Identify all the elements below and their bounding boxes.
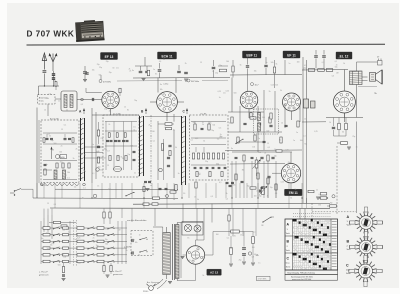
matrix row left resistor (43, 233, 50, 236)
svg-text:100: 100 (103, 158, 106, 160)
matrix row mid resistor (63, 254, 69, 256)
mains switch 1 (139, 239, 140, 240)
ground AZ12 (183, 254, 187, 256)
svg-text:2n: 2n (46, 164, 48, 166)
svg-text:Ans. Spannung: Ans. Spannung (146, 281, 159, 284)
svg-text:50k: 50k (99, 75, 102, 77)
svg-text:1n: 1n (219, 97, 221, 99)
svg-text:2n: 2n (61, 145, 63, 147)
band switch wafer C (181, 116, 183, 185)
svg-text:0,3: 0,3 (101, 157, 103, 159)
svg-text:25p: 25p (51, 140, 54, 142)
svg-text:0,5: 0,5 (217, 139, 219, 141)
wire bus to lamp branch (211, 203, 213, 222)
resistor above table right (330, 205, 337, 207)
svg-text:50k: 50k (193, 122, 196, 124)
svg-text:25p: 25p (51, 243, 54, 245)
svg-text:Vark: Vark (347, 249, 351, 251)
svg-text:0,1: 0,1 (268, 147, 270, 149)
svg-text:0,1: 0,1 (92, 173, 94, 175)
screen dash line mid (150, 115, 152, 186)
bus line 3 (133, 202, 330, 205)
dial lamp 1 (184, 224, 191, 231)
svg-text:0,1: 0,1 (335, 61, 337, 63)
svg-text:2k: 2k (264, 153, 266, 155)
svg-text:50k: 50k (271, 62, 274, 64)
wire top bus right portion (284, 60, 286, 75)
electrolytic capacitor block 1 (304, 99, 309, 108)
capacitor EF13 anode bypass (85, 72, 88, 74)
tube label EL12 (336, 52, 352, 59)
svg-text:25p: 25p (97, 64, 100, 66)
EL12 cathode resistor 2 (345, 123, 348, 130)
svg-text:d 707 WKK: d 707 WKK (258, 279, 267, 281)
matrix row mid resistor (63, 260, 69, 262)
svg-text:5k: 5k (133, 130, 135, 132)
EL12 cathode capacitor (332, 126, 335, 128)
power transformer (163, 223, 179, 281)
svg-text:50k: 50k (229, 248, 232, 250)
wire output bus (302, 69, 348, 72)
svg-text:gemessen: gemessen (113, 274, 123, 276)
svg-text:c. Pos 27: c. Pos 27 (39, 272, 49, 274)
svg-text:50k: 50k (338, 57, 341, 59)
svg-text:2k: 2k (185, 63, 187, 65)
capacitor switch 2 (131, 251, 133, 254)
matrix row left contact (53, 242, 54, 243)
svg-text:70p: 70p (211, 130, 214, 132)
svg-text:5k: 5k (240, 65, 242, 67)
svg-text:0,5: 0,5 (81, 104, 83, 106)
wire EM11 ground stub (290, 183, 292, 189)
svg-text:50k: 50k (131, 146, 134, 148)
wire right section links (302, 121, 326, 123)
svg-text:100: 100 (300, 140, 303, 142)
svg-text:25p: 25p (46, 232, 49, 234)
svg-text:500: 500 (54, 174, 57, 176)
svg-text:2n: 2n (93, 237, 95, 239)
svg-text:25p: 25p (205, 161, 208, 163)
svg-text:1n: 1n (296, 132, 298, 134)
svg-text:70p: 70p (127, 154, 130, 156)
matrix row right resistor 1 (77, 227, 84, 230)
svg-text:15: 15 (200, 62, 202, 64)
solid vertical from transformer (356, 122, 358, 214)
svg-text:0,25: 0,25 (96, 151, 99, 153)
svg-text:500: 500 (47, 248, 50, 250)
svg-text:von Ein Bauschalter: von Ein Bauschalter (127, 219, 147, 222)
resistor ECH11 couple 1 (165, 123, 172, 126)
components below ECH11 (161, 144, 163, 151)
svg-text:15: 15 (240, 234, 242, 236)
svg-text:30: 30 (49, 136, 51, 138)
svg-text:0,3: 0,3 (63, 229, 65, 231)
svg-text:50k: 50k (67, 172, 70, 174)
svg-text:2k: 2k (267, 195, 269, 197)
svg-text:10k: 10k (92, 69, 95, 71)
matrix row right resistor 2 (97, 254, 104, 256)
svg-text:gemessen: gemessen (39, 275, 49, 277)
svg-text:30: 30 (183, 193, 185, 195)
box1 H30 oscillator coil (56, 155, 67, 159)
svg-text:2k: 2k (44, 109, 46, 111)
dial cord zigzag (40, 183, 79, 186)
box3 caps row (194, 166, 197, 168)
wire antenna to coil (55, 98, 61, 100)
svg-text:2k: 2k (202, 124, 204, 126)
svg-text:0,3: 0,3 (132, 239, 134, 241)
matrix row right resistor 2 (97, 227, 104, 230)
svg-text:EF 13: EF 13 (105, 55, 114, 59)
wire bus to AZ12 anode (196, 209, 198, 240)
box3 top components (194, 124, 196, 130)
matrix row mid resistor (63, 227, 69, 229)
svg-text:10k: 10k (62, 253, 65, 255)
matrix row right resistor 2 (97, 240, 104, 243)
matrix row wire (41, 247, 127, 249)
svg-text:8n: 8n (155, 74, 157, 76)
matrix row right contact 2 (107, 235, 108, 236)
svg-text:30: 30 (112, 68, 114, 70)
svg-text:10k: 10k (254, 70, 257, 72)
svg-text:5k: 5k (226, 193, 228, 195)
IF transformer 2 dashed box (254, 109, 279, 134)
svg-text:EBF 11: EBF 11 (246, 53, 257, 57)
capacitor antenna 2a (52, 73, 55, 75)
junction circle bus 1 (93, 194, 97, 198)
box2 component row 2 (109, 156, 111, 161)
svg-text:25p: 25p (215, 73, 218, 75)
svg-text:1n: 1n (92, 144, 94, 146)
svg-text:Vark: Vark (286, 233, 290, 235)
svg-text:2k: 2k (126, 250, 128, 252)
svg-text:25p: 25p (352, 136, 355, 138)
dashed box mains switches (131, 231, 153, 256)
svg-text:2k: 2k (76, 149, 78, 151)
svg-text:100: 100 (63, 256, 66, 258)
svg-text:30: 30 (290, 198, 292, 200)
svg-text:2k: 2k (149, 125, 151, 127)
svg-text:Gegenkopplg. Hilfsabschaltung: Gegenkopplg. Hilfsabschaltung (287, 272, 315, 275)
phone jack (377, 57, 382, 66)
svg-text:8n: 8n (97, 145, 99, 147)
svg-text:500: 500 (266, 130, 269, 132)
speaker (370, 70, 383, 84)
capacitor C24 pair (184, 71, 188, 73)
tube label EF13 (101, 53, 118, 60)
svg-text:50k: 50k (105, 243, 108, 245)
svg-text:1n: 1n (58, 101, 60, 103)
header rule (27, 43, 386, 46)
chassis bus (50, 207, 330, 210)
svg-text:5k: 5k (269, 91, 271, 93)
matrix top feed wires (43, 218, 45, 232)
svg-text:0,1: 0,1 (253, 232, 255, 234)
box3 wires (191, 121, 226, 123)
svg-text:c. Pos 27: c. Pos 27 (113, 271, 123, 273)
electrolytic capacitor block 2 (311, 101, 316, 108)
svg-text:25p: 25p (239, 260, 242, 262)
svg-text:1n: 1n (105, 149, 107, 151)
svg-text:2n: 2n (188, 225, 190, 227)
svg-text:220V~: 220V~ (143, 291, 150, 293)
matrix bottom component 1 (62, 267, 64, 273)
svg-text:100: 100 (216, 164, 219, 166)
EL12 cathode row wire (326, 116, 363, 118)
resistor detector (276, 150, 282, 152)
svg-text:0,5: 0,5 (223, 93, 225, 95)
antenna A1 arrow (42, 53, 46, 70)
matrix row right resistor 2 (97, 260, 104, 263)
svg-text:25p: 25p (303, 68, 306, 70)
matrix row wire (41, 227, 127, 229)
tube EL12 V5 socket (333, 91, 355, 113)
wire bus to transformer primary (154, 209, 156, 226)
svg-text:100: 100 (252, 247, 255, 249)
matrix row right contact 2 (107, 262, 108, 263)
matrix row left resistor (43, 247, 50, 250)
svg-text:0,1: 0,1 (64, 125, 66, 127)
svg-text:2k: 2k (205, 168, 207, 170)
tube EM11 V6 magic eye (281, 164, 300, 183)
svg-text:500: 500 (78, 263, 81, 265)
ground C21 (142, 78, 146, 80)
resistor pair near EM11 bus (175, 185, 177, 191)
svg-text:25p: 25p (274, 156, 277, 158)
bus line 2 (33, 197, 178, 200)
matrix row right resistor 1 (77, 254, 84, 256)
svg-text:70p: 70p (105, 239, 108, 241)
svg-text:30: 30 (163, 59, 165, 61)
svg-text:30: 30 (138, 254, 140, 256)
svg-text:0,25: 0,25 (105, 228, 108, 230)
matrix row left resistor (43, 254, 50, 256)
svg-text:70p: 70p (134, 100, 137, 102)
switch on bus (125, 192, 134, 196)
matrix row right resistor 2 (97, 233, 104, 236)
svg-text:1n: 1n (293, 140, 295, 142)
capacitor switch 1 (131, 239, 133, 242)
capacitor C23 (177, 70, 181, 72)
matrix row right contact 1 (87, 235, 88, 236)
wire EM11 top (290, 152, 292, 163)
wires PSU top (205, 254, 213, 256)
svg-text:2k: 2k (304, 119, 306, 121)
speaker caption (358, 85, 377, 87)
svg-text:50k: 50k (64, 140, 67, 142)
tube label EF11 (283, 51, 300, 58)
svg-text:30: 30 (196, 257, 198, 259)
wire top bus ECH (133, 77, 230, 80)
svg-text:0,1: 0,1 (67, 178, 69, 180)
wire verticals to buses (36, 183, 38, 198)
matrix row right contact 1 (87, 262, 88, 263)
bus line 1 (55, 188, 178, 190)
svg-text:50k: 50k (233, 185, 236, 187)
svg-text:8n: 8n (84, 154, 86, 156)
matrix row right resistor 2 (97, 247, 104, 250)
svg-text:0,1: 0,1 (303, 136, 305, 138)
svg-text:0,1: 0,1 (190, 140, 192, 142)
svg-text:2k: 2k (108, 124, 110, 126)
svg-text:2k: 2k (70, 105, 72, 107)
svg-text:25p: 25p (259, 195, 262, 197)
matrix row wire (41, 234, 127, 236)
coil box 1 dashed (Ant.Sp.) (41, 120, 79, 183)
diode load resistor (267, 155, 269, 161)
svg-text:25p: 25p (288, 162, 291, 164)
box2 right caps (133, 150, 136, 152)
matrix row right contact 2 (107, 242, 108, 243)
svg-text:0,5: 0,5 (235, 174, 237, 176)
wire EM11 left (272, 172, 281, 174)
ground PSU 1 (242, 261, 246, 263)
radio cabinet illustration (75, 20, 105, 43)
svg-text:Ant.Sp.BK: Ant.Sp.BK (50, 117, 59, 120)
svg-text:0,25: 0,25 (218, 91, 221, 93)
node 473kHz label (99, 80, 102, 83)
mains switch 2 (139, 251, 140, 252)
caps detector row (260, 156, 263, 158)
band switch wafer A (80, 118, 82, 181)
wire bottom mid stubs (121, 209, 123, 218)
svg-text:2n: 2n (210, 123, 212, 125)
svg-text:A: A (347, 215, 350, 219)
EF13 couple components (97, 130, 99, 136)
svg-text:15: 15 (97, 186, 99, 188)
capacitor antenna 1 (43, 70, 47, 72)
svg-text:2n: 2n (178, 173, 180, 175)
svg-text:50k: 50k (335, 67, 338, 69)
ECH11 lower caps (167, 156, 170, 158)
tube EF13 V1 socket (102, 91, 119, 108)
resistor EF13 screen (119, 88, 121, 93)
svg-text:25p: 25p (106, 61, 109, 63)
svg-text:50k: 50k (212, 125, 215, 127)
svg-text:1n: 1n (258, 263, 260, 265)
svg-text:100: 100 (152, 131, 155, 133)
tube ECH11 V2 socket (157, 92, 178, 113)
svg-text:2n: 2n (336, 64, 338, 66)
box3 resistor row (192, 153, 194, 159)
wire antenna junction bus (39, 85, 60, 87)
resistor PSU right (252, 237, 255, 244)
svg-text:50k: 50k (275, 84, 278, 86)
svg-text:2n: 2n (124, 107, 126, 109)
svg-text:70p: 70p (304, 144, 307, 146)
svg-text:5k: 5k (343, 63, 345, 65)
svg-text:0,3: 0,3 (322, 62, 324, 64)
box2 oval coil (113, 166, 121, 171)
svg-text:5k: 5k (276, 64, 278, 66)
tube EF11 V4 socket (283, 93, 301, 111)
svg-text:Vark: Vark (347, 225, 351, 227)
resistor ECH11 couple 2 (166, 127, 172, 129)
wire AZ12 anodes (195, 240, 197, 246)
svg-text:30: 30 (342, 132, 344, 134)
svg-text:0,5: 0,5 (219, 128, 221, 130)
resistor R33 (273, 67, 275, 73)
svg-text:1n: 1n (66, 110, 68, 112)
svg-text:1n: 1n (289, 63, 291, 65)
svg-text:Zw.Tr.BK: Zw.Tr.BK (113, 112, 121, 115)
svg-text:25p: 25p (104, 109, 107, 111)
wire lamp box feeds (177, 222, 203, 224)
matrix row left resistor (43, 227, 50, 230)
svg-text:0,1: 0,1 (219, 182, 221, 184)
tone components right (320, 197, 327, 199)
svg-text:0,5: 0,5 (226, 199, 228, 201)
wire detector row (225, 149, 302, 152)
svg-text:0,3: 0,3 (252, 257, 254, 259)
svg-text:0,3: 0,3 (319, 194, 321, 196)
series resistor on bus 2 (152, 203, 158, 205)
svg-text:25p: 25p (100, 170, 103, 172)
svg-text:Vark: Vark (286, 250, 290, 252)
matrix row left resistor (43, 240, 50, 243)
tube label ECH11 (158, 52, 177, 59)
box1 small resistors row (56, 163, 58, 168)
box1 trimmer pair 2 (64, 137, 67, 139)
tube EBF11 V3 socket (240, 91, 258, 109)
capacitor C31 (212, 66, 216, 68)
matrix vertical rails (40, 221, 42, 264)
wire left edge verticals (36, 108, 38, 199)
svg-text:5k: 5k (197, 199, 199, 201)
svg-text:50k: 50k (46, 98, 49, 100)
svg-text:AZ 12: AZ 12 (210, 271, 219, 275)
svg-text:50k: 50k (106, 104, 109, 106)
svg-text:1n: 1n (83, 170, 85, 172)
svg-text:100: 100 (252, 147, 255, 149)
svg-text:ECH 11: ECH 11 (162, 54, 173, 58)
switch position table (285, 219, 338, 270)
svg-text:Kreis: Kreis (39, 100, 44, 103)
tone potentiometer (262, 187, 265, 195)
tube AZ12 V7 rectifier (186, 246, 204, 264)
wire mid verticals to bus (231, 161, 233, 198)
wire cathode row bottom (334, 135, 347, 137)
stamp box (257, 276, 271, 280)
oscillator coil box 3 dashed (190, 115, 229, 180)
electrolytic pair PSU (242, 247, 246, 249)
svg-text:8n: 8n (132, 70, 134, 72)
box1 wires upper (43, 132, 77, 134)
svg-text:C: C (346, 264, 349, 268)
ground PSU 3 (251, 262, 255, 264)
wire right verticals (302, 57, 304, 122)
box1 coil L left (54, 170, 57, 179)
svg-text:2n: 2n (256, 190, 258, 192)
svg-text:0,5: 0,5 (133, 126, 135, 128)
svg-text:0,25: 0,25 (195, 138, 198, 140)
svg-text:2k: 2k (256, 163, 258, 165)
matrix row left contact (53, 228, 54, 229)
svg-text:0,25: 0,25 (77, 237, 80, 239)
resistor chain output bus (308, 69, 315, 72)
lower mid components (235, 174, 237, 180)
svg-text:100: 100 (216, 234, 219, 236)
wire IF2 top bus (230, 74, 302, 77)
mains pull switch at left edge (10, 189, 21, 196)
svg-text:10k: 10k (135, 242, 138, 244)
ground PSU 2 (229, 263, 233, 265)
svg-text:5k: 5k (202, 275, 204, 277)
capacitor C34 (264, 64, 267, 66)
svg-text:500: 500 (54, 143, 57, 145)
antenna coil can (61, 91, 77, 111)
svg-text:0,25: 0,25 (232, 236, 235, 238)
